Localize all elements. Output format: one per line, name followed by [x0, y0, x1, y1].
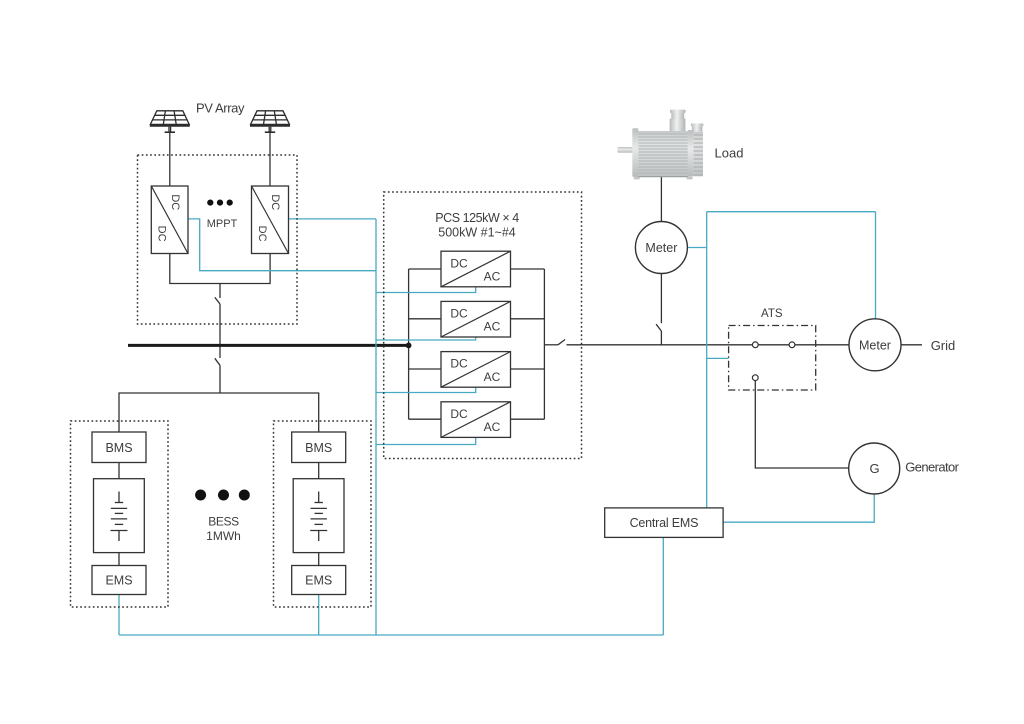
svg-text:EMS: EMS: [105, 574, 132, 588]
svg-text:G: G: [870, 461, 880, 476]
svg-text:PV Array: PV Array: [196, 101, 245, 116]
svg-text:Meter: Meter: [859, 338, 891, 352]
svg-text:500kW #1~#4: 500kW #1~#4: [438, 225, 516, 239]
svg-text:DC: DC: [169, 194, 181, 210]
svg-text:EMS: EMS: [305, 574, 332, 588]
svg-text:Meter: Meter: [645, 241, 677, 255]
svg-text:DC: DC: [156, 226, 168, 242]
svg-text:BMS: BMS: [305, 441, 332, 455]
svg-text:BMS: BMS: [105, 441, 132, 455]
svg-text:Central EMS: Central EMS: [630, 516, 699, 530]
svg-text:DC: DC: [450, 357, 468, 371]
svg-text:AC: AC: [484, 370, 501, 384]
svg-text:AC: AC: [484, 420, 501, 434]
svg-text:DC: DC: [450, 307, 468, 321]
svg-text:DC: DC: [256, 226, 268, 242]
svg-text:AC: AC: [484, 320, 501, 334]
svg-text:BESS: BESS: [208, 514, 239, 528]
svg-text:Generator: Generator: [905, 460, 959, 475]
svg-text:ATS: ATS: [761, 308, 783, 320]
svg-text:MPPT: MPPT: [207, 218, 238, 230]
svg-text:DC: DC: [450, 407, 468, 421]
svg-text:DC: DC: [450, 256, 468, 270]
svg-text:PCS 125kW × 4: PCS 125kW × 4: [435, 211, 519, 225]
svg-text:Grid: Grid: [931, 338, 956, 353]
svg-text:Load: Load: [715, 145, 744, 160]
svg-text:AC: AC: [484, 270, 501, 284]
svg-text:DC: DC: [269, 194, 281, 210]
svg-text:1MWh: 1MWh: [206, 529, 241, 543]
